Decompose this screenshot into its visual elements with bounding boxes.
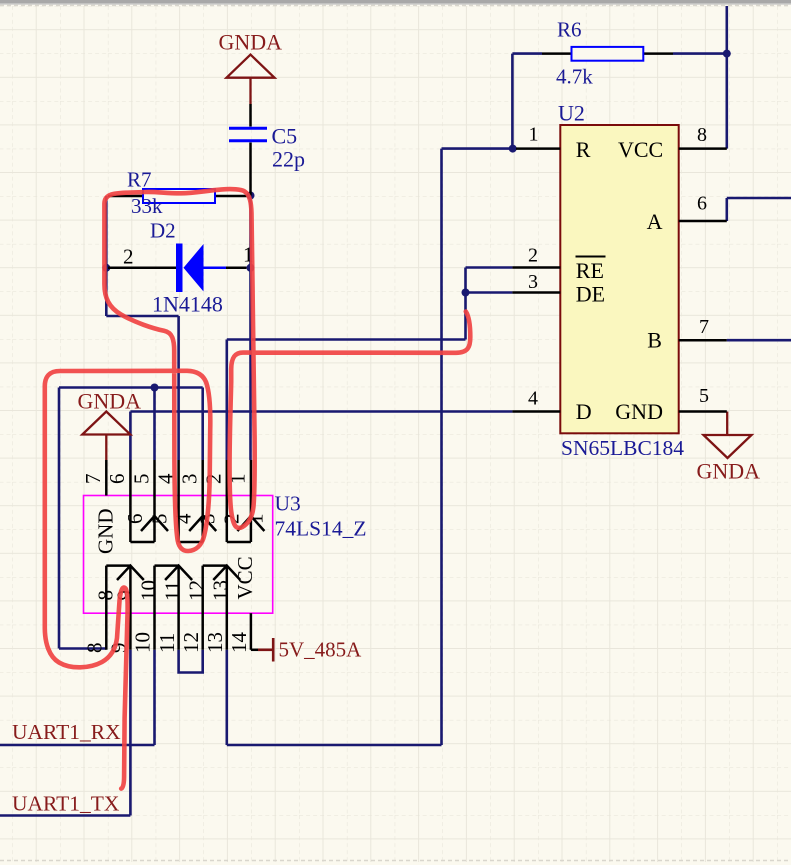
svg-text:D: D <box>576 399 592 424</box>
svg-text:13: 13 <box>203 632 227 653</box>
U3 bottom outside pin numbers (rotated) <box>83 632 252 654</box>
U3 pin 4 line <box>177 460 180 542</box>
U3 pin 9 line <box>129 566 132 650</box>
U2 pin 6 A <box>647 193 727 235</box>
wire C5 junction down through diode junction to U3 pin1 <box>249 196 252 461</box>
svg-text:3: 3 <box>528 271 538 293</box>
U2 pin 1 R <box>516 124 591 163</box>
U3 pin 8 line <box>105 566 108 650</box>
svg-text:10: 10 <box>131 632 155 653</box>
svg-text:12: 12 <box>179 632 203 653</box>
junction dot C5/R7 <box>247 192 255 200</box>
sheet bottom dashed edge <box>0 860 791 862</box>
svg-text:VCC: VCC <box>618 137 663 162</box>
svg-text:GNDA: GNDA <box>697 459 761 484</box>
U3 pin 5 line <box>153 460 156 542</box>
wire RE/DE vertical <box>464 268 467 340</box>
U3 pin 14 stub <box>250 613 253 650</box>
U3 gate U 12-13 <box>203 564 227 567</box>
U3 pin 3 line <box>201 460 204 542</box>
svg-text:9: 9 <box>112 590 136 601</box>
wire DE net y340 horizontal <box>227 338 466 341</box>
wire DE net down to U3 pin2 <box>226 340 229 461</box>
wire junction drop to U3 pin5 <box>153 388 156 461</box>
U3 gate U 6-5 <box>130 541 154 544</box>
svg-text:74LS14_Z: 74LS14_Z <box>275 517 367 541</box>
U3 gate U 10-11 <box>155 564 179 567</box>
U3 pin 7 stub <box>105 460 108 496</box>
svg-text:B: B <box>647 328 662 353</box>
wire U2 pin1 R to long vertical <box>442 147 513 150</box>
svg-text:1: 1 <box>529 124 539 146</box>
U2 pin 5 GND <box>615 385 727 424</box>
svg-text:GNDA: GNDA <box>219 30 283 55</box>
svg-text:UART1_RX: UART1_RX <box>12 720 121 744</box>
svg-text:8: 8 <box>697 124 707 146</box>
wire U3 pins 11-12 tie <box>179 650 203 673</box>
wire bottom left horizontal to U3 pin8 <box>59 647 106 650</box>
svg-text:U3: U3 <box>275 492 301 516</box>
svg-text:11: 11 <box>155 633 179 653</box>
resistor R6 <box>542 18 673 89</box>
U2 pin 3 DE <box>512 271 605 307</box>
U3 pin 2 line <box>226 460 229 542</box>
ground GNDA top <box>227 55 275 104</box>
svg-text:A: A <box>647 209 663 234</box>
U3 gate U 8-9 <box>106 564 130 567</box>
U3 gate arrow pin13 <box>213 566 240 580</box>
wire step horizontal y316 <box>106 315 178 318</box>
wire net y387 horizontal (U3 pins 3,5,8) <box>59 386 203 389</box>
svg-text:R6: R6 <box>557 18 582 42</box>
junction dot U2 pin1 <box>509 145 517 153</box>
svg-text:4: 4 <box>528 388 538 410</box>
junction dot D2 right <box>247 264 255 272</box>
svg-text:12: 12 <box>185 580 209 601</box>
svg-text:D2: D2 <box>150 219 176 243</box>
svg-text:33k: 33k <box>131 194 163 218</box>
svg-text:5: 5 <box>147 514 171 525</box>
wire long vertical x441 from R net down to bottom <box>440 149 443 745</box>
svg-text:R7: R7 <box>127 168 152 192</box>
U3 pin 6 line <box>129 460 132 542</box>
U3 gate arrow pin5 <box>141 516 168 531</box>
svg-text:GNDA: GNDA <box>78 389 142 414</box>
wire DE horizontal <box>466 291 513 294</box>
wire RE horizontal <box>466 266 513 269</box>
svg-text:14: 14 <box>227 632 251 654</box>
junction dot U3 pin5 net <box>151 384 159 392</box>
svg-text:8: 8 <box>83 643 107 654</box>
U3 gate arrow pin11 <box>165 566 192 580</box>
annotation red highlight marker stroke <box>45 189 471 789</box>
svg-text:6: 6 <box>697 193 707 215</box>
U3 pin 1 line <box>250 460 253 542</box>
capacitor C5 <box>229 104 305 196</box>
wire A net horizontal to right edge <box>727 197 791 200</box>
window chrome top bar <box>0 0 791 3</box>
svg-text:2: 2 <box>202 474 226 485</box>
svg-text:1N4148: 1N4148 <box>152 292 223 317</box>
wire y387 right corner down to U3 pin3 <box>201 388 204 461</box>
svg-text:13: 13 <box>209 580 233 601</box>
ground GNDA mid-left <box>82 412 130 461</box>
junction dot RE/DE <box>462 289 470 297</box>
svg-text:6: 6 <box>105 474 129 485</box>
svg-text:3: 3 <box>178 474 202 485</box>
wire R7 left down to diode pin2 and step <box>105 196 108 316</box>
wire D net corner down to U3 pin6 <box>129 412 132 461</box>
svg-text:2: 2 <box>123 245 134 269</box>
wire UART1_TX horizontal <box>0 814 130 817</box>
U3 gate U 2-1 <box>227 541 251 544</box>
svg-text:GND: GND <box>615 399 663 424</box>
sheet top dashed edge <box>0 4 791 6</box>
svg-text:C5: C5 <box>272 124 298 149</box>
wire UART1_RX horizontal <box>0 744 155 747</box>
U2 pin 2 RE <box>512 245 605 284</box>
power 5V_485A bar <box>258 638 273 662</box>
wire step down to U3 pin4 <box>177 316 180 460</box>
U3 gate U 4-3 <box>179 541 203 544</box>
IC U3 74LS14_Z body <box>84 492 367 614</box>
diode D2 1N4148 <box>108 219 254 317</box>
svg-text:VCC: VCC <box>233 556 257 599</box>
wire R6 left vertical to U2 pin1 junction <box>511 54 514 149</box>
wire UART1_RX vertical to U3 pin10 <box>153 650 156 745</box>
svg-text:RE: RE <box>576 258 604 283</box>
svg-text:GND: GND <box>93 509 117 555</box>
wire UART1_TX vertical to U3 pin9 <box>129 650 132 816</box>
resistor R7 <box>108 168 247 219</box>
wire left vertical x59 down <box>58 388 61 649</box>
junction dot D2 left <box>102 264 110 272</box>
wire top-right vertical through R6 junction to U2 VCC pin8 <box>725 6 728 149</box>
U2 pin 4 D <box>512 388 591 425</box>
IC U2 SN65LBC184 body <box>558 101 684 461</box>
U3 pin 13 line <box>226 566 229 650</box>
svg-text:5V_485A: 5V_485A <box>279 638 363 662</box>
wire U3 pin13 vertical <box>226 650 229 745</box>
svg-text:UART1_TX: UART1_TX <box>12 792 120 816</box>
U3 gate arrow pin9 <box>117 566 144 580</box>
wire R6 left horizontal <box>512 52 542 55</box>
U3 pin 12 line <box>201 566 204 650</box>
wire R6 right horizontal to junction <box>673 52 727 55</box>
U3 top outside pin numbers (rotated) <box>81 473 250 484</box>
wire bottom horizontal from U3 pin13 to long vertical <box>227 744 442 747</box>
svg-text:7: 7 <box>81 474 105 485</box>
svg-text:6: 6 <box>123 514 147 525</box>
wire A net vertical <box>725 198 728 221</box>
wire B net horizontal to right edge <box>727 339 791 342</box>
U3 pin 14 to 5V bar <box>251 649 258 652</box>
svg-text:5: 5 <box>129 474 153 485</box>
U3 inner pin names (rotated) <box>93 509 267 602</box>
U3 top pins and inner gate symbols <box>106 460 264 650</box>
svg-text:DE: DE <box>576 282 605 307</box>
svg-text:2: 2 <box>528 245 538 267</box>
svg-text:R: R <box>576 137 591 162</box>
junction dot R6 right <box>723 50 731 58</box>
svg-text:11: 11 <box>161 581 185 601</box>
ground GNDA bottom-right <box>704 412 752 459</box>
svg-text:SN65LBC184: SN65LBC184 <box>561 436 684 460</box>
svg-text:5: 5 <box>699 385 709 407</box>
U2 pin 7 B <box>647 316 727 353</box>
wire D net horizontal y411 <box>130 410 512 413</box>
svg-text:U2: U2 <box>558 101 585 126</box>
svg-text:22p: 22p <box>272 147 305 172</box>
svg-text:10: 10 <box>136 580 160 601</box>
U3 gate arrow pin3 <box>189 516 216 531</box>
U3 pin 11 line <box>177 566 180 650</box>
svg-text:4.7k: 4.7k <box>556 65 593 89</box>
svg-text:7: 7 <box>699 316 709 338</box>
U3 gate arrow pin1 <box>237 516 264 531</box>
U3 pin 10 line <box>153 566 156 650</box>
U2 pin 8 VCC <box>618 124 727 162</box>
